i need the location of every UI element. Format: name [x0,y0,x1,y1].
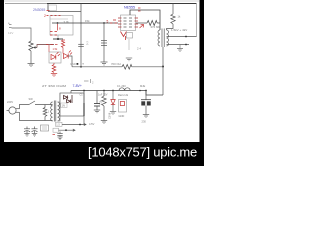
svg-text:1uF 25V: 1uF 25V [98,94,108,97]
svg-text:700 OH: 700 OH [111,62,121,66]
svg-text:3.3k: 3.3k [64,20,70,24]
svg-text:2: 2 [44,14,46,18]
svg-text:Rail 2.2k: Rail 2.2k [118,93,129,97]
svg-text:12V: 12V [8,31,13,35]
svg-text:2 4: 2 4 [137,47,141,51]
svg-text:C5V6: C5V6 [108,112,111,119]
svg-text:[1048x757] upic.me: [1048x757] upic.me [88,144,197,159]
svg-text:(+): (+) [86,42,90,46]
svg-text:2T 360 OHM: 2T 360 OHM [42,84,67,88]
svg-text:NE555: NE555 [124,5,135,9]
svg-text:1.5: 1.5 [56,124,60,127]
svg-text:220V: 220V [7,100,13,104]
svg-text:SW: SW [29,97,34,101]
svg-text:2N3055: 2N3055 [33,8,45,12]
svg-text:0.1: 0.1 [46,110,50,114]
svg-text:1.5kV + 4kV: 1.5kV + 4kV [171,28,187,32]
svg-text:MJE: MJE [140,84,145,88]
svg-text:1.5k: 1.5k [53,48,58,51]
svg-text:0.1 230: 0.1 230 [117,84,126,88]
svg-text:1N: 1N [62,104,65,108]
svg-text:m: m [82,63,84,66]
svg-text:470 600: 470 600 [151,25,162,29]
svg-text:15k: 15k [85,19,90,23]
svg-text:230: 230 [142,119,147,123]
svg-text:4.5V: 4.5V [89,122,95,126]
svg-text:GND: GND [119,114,125,118]
svg-text:5: 5 [107,19,109,23]
svg-text:7-8V+: 7-8V+ [73,84,82,88]
svg-text:GND: GND [70,62,76,66]
